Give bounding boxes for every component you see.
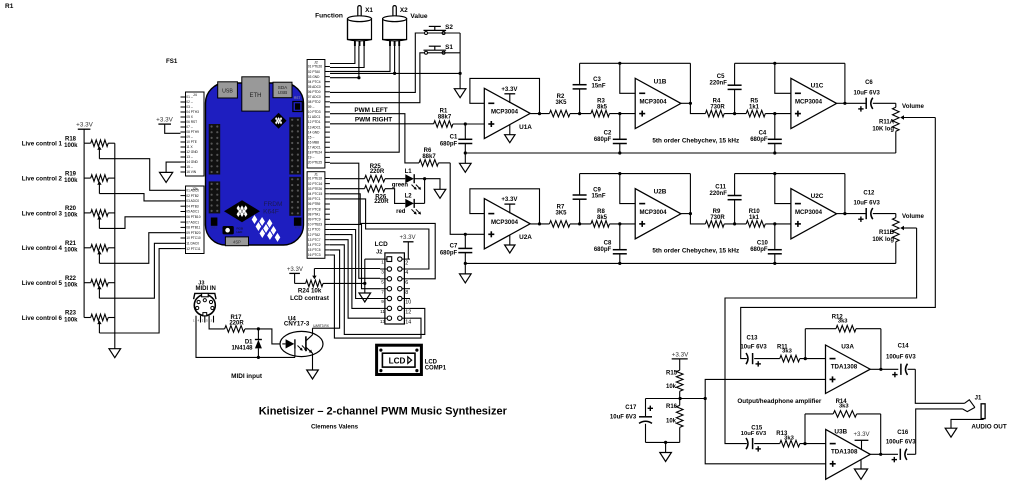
resistor R13 3k3 (780, 440, 800, 447)
resistor R11 3k3 (780, 355, 800, 362)
svg-text:U1A: U1A (519, 124, 532, 131)
svg-text:12 PTA2: 12 PTA2 (308, 233, 320, 237)
svg-text:J4: J4 (193, 93, 197, 97)
svg-text:07 ADC0: 07 ADC0 (308, 95, 321, 99)
wire opto LED cathode (294, 349, 296, 358)
svg-text:100k: 100k (64, 248, 78, 254)
svg-text:C12: C12 (863, 190, 875, 196)
wire U3B minus node (800, 443, 826, 445)
resistor R3 8k5 (591, 110, 610, 117)
svg-text:R11A: R11A (879, 120, 895, 126)
resistor R26 220R (330, 188, 365, 190)
wire rail (U1B) (580, 62, 691, 64)
USB connector (218, 82, 238, 98)
svg-text:06 PTB9: 06 PTB9 (308, 202, 321, 206)
svg-text:U2A: U2A (519, 234, 532, 241)
ground (U1A) (509, 125, 511, 135)
capacitor C7 680pF (464, 234, 466, 248)
wire S2 left (330, 33, 425, 92)
svg-text:Live control 5: Live control 5 (22, 280, 63, 287)
ground (C1) (460, 163, 472, 172)
svg-text:3k3: 3k3 (839, 404, 849, 410)
svg-text:Live control 2: Live control 2 (22, 176, 63, 183)
svg-text:1: 1 (381, 260, 384, 265)
wire nodeA (570, 223, 591, 225)
svg-text:680pF: 680pF (750, 247, 768, 253)
svg-text:1k1: 1k1 (749, 104, 760, 110)
LCD COMP1 icon (377, 345, 422, 374)
svg-text:LCD: LCD (389, 357, 406, 366)
wire PWM RIGHT (330, 123, 434, 125)
svg-text:100k: 100k (64, 213, 78, 219)
svg-text:10 PTE: 10 PTE (186, 140, 197, 144)
wire LC6 wiper to J2b (99, 249, 180, 333)
svg-text:03 ADC0: 03 ADC0 (186, 199, 199, 203)
wire U3A minus node (800, 358, 826, 360)
resistor R17 220R (225, 326, 245, 333)
svg-text:X1: X1 (365, 7, 373, 14)
svg-text:+3.3V: +3.3V (853, 431, 870, 438)
svg-text:09 --: 09 -- (308, 105, 315, 109)
ground (R16) (660, 453, 672, 462)
ground (LEDs) (434, 189, 446, 198)
svg-text:U1C: U1C (811, 83, 824, 90)
svg-text:12: 12 (405, 310, 411, 316)
svg-text:13 --: 13 -- (186, 155, 193, 159)
svg-text:Function: Function (315, 13, 343, 20)
svg-text:10: 10 (405, 300, 411, 306)
wire C16 to jack (916, 409, 963, 454)
wire nodeC (724, 113, 746, 115)
wire LC2 wiper to J2b (99, 194, 180, 201)
svg-text:MIDI IN: MIDI IN (196, 286, 216, 292)
svg-text:01 PTE26: 01 PTE26 (308, 65, 322, 69)
svg-text:03 PTE26: 03 PTE26 (308, 187, 322, 191)
svg-text:C9: C9 (593, 187, 601, 193)
svg-text:Kinetisizer – 2-channel PWM Mu: Kinetisizer – 2-channel PWM Music Synthe… (259, 406, 508, 418)
wire U1B minus (620, 63, 635, 93)
wire U2A feedback (470, 189, 540, 224)
wire LC5 wiper to J2b (99, 243, 180, 298)
svg-text:S2: S2 (445, 24, 453, 31)
wire gnd row (330, 72, 460, 74)
svg-text:12 GND: 12 GND (186, 150, 198, 154)
wire J2p1 to X1 A (330, 46, 355, 64)
ground (switches) (454, 89, 466, 98)
logo white chevrons (252, 215, 258, 224)
resistor R14 3k3 (804, 414, 806, 444)
op-amp U3B TDA1308 (826, 429, 871, 479)
svg-text:11 DAC0: 11 DAC0 (186, 242, 199, 246)
svg-text:15 --: 15 -- (308, 135, 315, 139)
svg-text:TDA1308: TDA1308 (831, 448, 858, 455)
svg-text:C7: C7 (450, 244, 458, 250)
wire R24 gnd (363, 282, 366, 285)
wire LCD pin4 route (330, 199, 429, 269)
svg-text:19 --: 19 -- (308, 156, 315, 160)
ground (jack) (945, 428, 957, 437)
op-amp U2C MCP3004 (791, 189, 837, 239)
wire R11B to C15 (725, 228, 917, 444)
svg-text:R22: R22 (65, 276, 77, 282)
potentiometer R24 10k (295, 282, 306, 284)
resistor R9 730R (705, 221, 724, 228)
potentiometer R11A 10K log (895, 103, 897, 107)
ETH connector (242, 77, 269, 111)
svg-text:220nF: 220nF (710, 81, 728, 87)
svg-text:05 X: 05 X (186, 115, 193, 119)
ground (U3B) (860, 459, 862, 469)
svg-text:Clemens Valens: Clemens Valens (311, 424, 359, 431)
capacitor C11 220nF (734, 200, 736, 224)
svg-text:680pF: 680pF (750, 137, 768, 143)
INT2 chip (211, 218, 218, 226)
svg-text:220R: 220R (370, 169, 385, 175)
op-amp U2B MCP3004 (635, 189, 681, 239)
pin header left bottom (209, 181, 221, 213)
svg-text:10K log: 10K log (872, 237, 894, 243)
svg-text:220nF: 220nF (710, 191, 728, 197)
wire R11A wiper (904, 117, 936, 119)
svg-text:MCP3004: MCP3004 (491, 109, 519, 116)
svg-text:08 PTA1: 08 PTA1 (308, 212, 320, 216)
rotary encoder X1 (358, 6, 361, 20)
wire gnd rail (465, 152, 896, 154)
svg-text:8: 8 (405, 290, 408, 296)
svg-text:02 PTA0: 02 PTA0 (308, 70, 320, 74)
svg-text:11: 11 (380, 309, 385, 314)
wire J4 gnd (166, 162, 180, 172)
svg-text:680pF: 680pF (594, 137, 612, 143)
wire LCD pin9 route (330, 230, 380, 299)
wire U3A out (870, 368, 898, 370)
svg-text:04 PTC15: 04 PTC15 (308, 192, 323, 196)
svg-text:14 GND: 14 GND (308, 130, 320, 134)
svg-text:3k3: 3k3 (782, 348, 792, 354)
potentiometer R21 100k (84, 247, 91, 249)
svg-text:C5: C5 (717, 74, 725, 80)
svg-text:05 ADC1: 05 ADC1 (186, 210, 199, 214)
svg-text:13 PTC7: 13 PTC7 (308, 238, 321, 242)
logo big diamond (224, 200, 260, 222)
wire U1A out (530, 113, 549, 115)
INT1 chip (294, 218, 302, 226)
svg-text:Volume: Volume (902, 213, 924, 220)
svg-text:+3.3V: +3.3V (287, 266, 304, 273)
pin header right bottom (289, 177, 301, 216)
wire LCD pin11 route (330, 235, 380, 309)
svg-text:09 --: 09 -- (186, 135, 193, 139)
connector J1 MCU (307, 172, 325, 259)
svg-text:+3.3V: +3.3V (501, 196, 518, 203)
svg-text:09 PTB20: 09 PTB20 (186, 231, 200, 235)
wire LC3 wiper to J2b (99, 217, 180, 229)
capacitor C4 680pF (774, 114, 776, 140)
svg-text:5th order Chebychev, 15 kHz: 5th order Chebychev, 15 kHz (652, 248, 739, 255)
svg-text:14 GND: 14 GND (186, 160, 198, 164)
svg-text:100k: 100k (64, 283, 78, 289)
LED L2 red (405, 199, 414, 208)
svg-text:5: 5 (381, 279, 384, 284)
svg-text:X2: X2 (400, 7, 408, 14)
potentiometer R23 100k (84, 317, 91, 319)
svg-text:USB: USB (222, 88, 233, 94)
svg-text:04 PTH3: 04 PTH3 (186, 110, 199, 114)
svg-text:14 PTC2: 14 PTC2 (308, 243, 321, 247)
svg-text:06 RST: 06 RST (186, 120, 197, 124)
svg-text:MCP3004: MCP3004 (639, 209, 667, 216)
svg-text:AUDIO OUT: AUDIO OUT (971, 423, 1006, 430)
svg-text:100uF 6V3: 100uF 6V3 (886, 354, 916, 360)
pin header left top (209, 124, 221, 175)
svg-text:R21: R21 (65, 241, 77, 247)
svg-text:18 PTE24: 18 PTE24 (308, 151, 322, 155)
svg-text:LCD: LCD (375, 241, 389, 248)
svg-text:R19: R19 (65, 171, 77, 177)
ground (J4) (160, 172, 173, 182)
capacitor C2 680pF (619, 114, 621, 140)
svg-text:3k3: 3k3 (838, 318, 848, 324)
wire LCD pin7 route (330, 224, 380, 288)
svg-text:Value: Value (410, 13, 428, 20)
capacitor C5 220nF (734, 89, 736, 113)
svg-text:15 --: 15 -- (186, 165, 193, 169)
svg-text:1k1: 1k1 (749, 215, 760, 221)
svg-text:C13: C13 (746, 336, 758, 342)
svg-text:08 PTB11: 08 PTB11 (186, 226, 200, 230)
wire nodeC (724, 223, 746, 225)
rotary encoder X2 (393, 6, 396, 20)
svg-text:10uF 6V3: 10uF 6V3 (854, 90, 881, 96)
capacitor C14 100uF 6V3 (900, 364, 902, 375)
op-amp U1B MCP3004 (635, 78, 681, 128)
svg-text:U2B: U2B (654, 189, 667, 196)
svg-text:C16: C16 (897, 430, 909, 436)
svg-text:4: 4 (405, 270, 408, 276)
svg-text:MIDI input: MIDI input (231, 373, 263, 380)
svg-text:TDA1308: TDA1308 (831, 363, 858, 370)
svg-text:07 ADC1: 07 ADC1 (186, 220, 199, 224)
svg-text:+3.3V: +3.3V (672, 352, 689, 359)
resistor R25 220R (330, 178, 365, 180)
svg-text:Live control 1: Live control 1 (22, 141, 63, 148)
svg-text:10uF 6V3: 10uF 6V3 (740, 344, 767, 350)
svg-text:12 PTD1: 12 PTD1 (308, 120, 321, 124)
svg-text:C17: C17 (625, 405, 637, 411)
capacitor C16 100uF 6V3 (899, 449, 901, 460)
svg-text:100k: 100k (64, 178, 78, 184)
switch S1 (425, 51, 428, 54)
resistor R12 3k3 (804, 329, 806, 359)
svg-text:Live control 3: Live control 3 (22, 210, 63, 217)
svg-text:06 PTD0: 06 PTD0 (308, 90, 321, 94)
svg-text:05 PTC1: 05 PTC1 (308, 197, 321, 201)
FRDM-K64F board (206, 83, 304, 245)
svg-text:U3B: U3B (834, 428, 847, 435)
wire R24 wiper to LCD pin3 (314, 268, 380, 270)
svg-text:Live control 6: Live control 6 (22, 315, 63, 322)
svg-text:05 ADC0: 05 ADC0 (308, 85, 321, 89)
wire U1A feedback (470, 78, 540, 113)
svg-text:680pF: 680pF (440, 250, 458, 256)
wire U2C minus (775, 174, 791, 204)
svg-text:10k: 10k (666, 418, 677, 424)
logo small diamond (271, 113, 287, 129)
resistor R1 88k7 (434, 121, 453, 128)
svg-text:07 PTC8: 07 PTC8 (308, 207, 321, 211)
svg-text:04 PTB3: 04 PTB3 (186, 204, 199, 208)
ground (opto) (307, 370, 319, 379)
svg-text:L1: L1 (405, 169, 413, 175)
svg-text:01 ADC0: 01 ADC0 (186, 189, 199, 193)
svg-text:J1: J1 (975, 395, 982, 401)
ground (U2A) (509, 235, 511, 245)
wire LC1 wiper to J2b (99, 159, 180, 191)
svg-text:J2: J2 (376, 249, 382, 255)
resistor R15 10k (676, 370, 683, 391)
wire nodeA (570, 113, 591, 115)
wire nodeD (765, 113, 791, 115)
resistor R2 3K5 (549, 110, 570, 117)
wire S1 left (330, 53, 425, 103)
svg-text:730R: 730R (710, 104, 725, 110)
svg-text:red: red (396, 209, 406, 215)
wire LCD pin12 route (330, 245, 425, 335)
wire DIN pin to rail (196, 323, 295, 358)
svg-text:10K log: 10K log (872, 127, 894, 133)
svg-text:08 PTH9: 08 PTH9 (186, 130, 199, 134)
capacitor C10 680pF (774, 224, 776, 250)
capacitor C17 10uF 6V3 (645, 399, 647, 417)
svg-text:220R: 220R (374, 199, 389, 205)
potentiometer R20 100k (84, 212, 91, 214)
svg-text:PWM RIGHT: PWM RIGHT (355, 117, 392, 124)
svg-text:3: 3 (381, 270, 384, 275)
svg-text:R20: R20 (65, 206, 77, 212)
svg-text:12 PTC11: 12 PTC11 (186, 247, 200, 251)
svg-text:C8: C8 (604, 241, 612, 247)
svg-text:S1: S1 (445, 44, 453, 51)
wire R11B wiper (904, 227, 917, 229)
connector J2 LCD (385, 253, 405, 324)
svg-text:MCP3004: MCP3004 (491, 219, 519, 226)
resistor R16 10k (679, 399, 681, 406)
potentiometer R19 100k (84, 177, 91, 179)
wire U2B minus (620, 174, 635, 204)
svg-text:L2: L2 (405, 194, 413, 200)
wire LC4 wiper to J2b (99, 233, 180, 264)
svg-text:INT2: INT2 (211, 226, 217, 230)
svg-text:13: 13 (380, 319, 386, 324)
svg-text:100uF 6V3: 100uF 6V3 (886, 439, 916, 445)
wire R1 to +in (453, 123, 484, 125)
capacitor C9 15nF (579, 199, 581, 224)
svg-text:R1: R1 (5, 3, 14, 10)
svg-text:R24 10k: R24 10k (298, 288, 322, 295)
wire X1 C drop (330, 77, 359, 79)
svg-text:15nF: 15nF (591, 194, 605, 200)
wire LCD pin6 route (330, 194, 435, 279)
svg-text:08 PTD2: 08 PTD2 (308, 100, 321, 104)
wire switch common (428, 32, 461, 34)
switch S2 (425, 32, 428, 35)
svg-text:7: 7 (381, 289, 384, 294)
svg-text:LCD: LCD (425, 359, 438, 365)
svg-text:UART3 RX: UART3 RX (313, 324, 330, 328)
optocoupler U4 CNY17-3 (280, 331, 323, 356)
wire U3B out (870, 453, 898, 455)
svg-text:C6: C6 (865, 80, 873, 86)
svg-text:FS1: FS1 (166, 58, 178, 65)
op-amp U3A TDA1308 (826, 345, 871, 394)
svg-text:U1B: U1B (654, 78, 667, 85)
svg-text:10 PTC10: 10 PTC10 (186, 236, 201, 240)
connector J2 MCU (307, 60, 325, 169)
svg-text:680pF: 680pF (440, 141, 458, 147)
svg-text:20 PTE25: 20 PTE25 (308, 161, 322, 165)
svg-text:15nF: 15nF (591, 83, 605, 89)
svg-text:09 PTC9: 09 PTC9 (308, 218, 321, 222)
potentiometer R11B 10K log (895, 214, 897, 218)
op-amp U1A MCP3004 (484, 88, 530, 138)
wire U2B out (681, 213, 691, 215)
resistor R6 88k7 (419, 160, 438, 167)
svg-text:13 ADC1: 13 ADC1 (308, 125, 321, 129)
svg-text:16 VIN: 16 VIN (186, 170, 196, 174)
svg-text:10k: 10k (666, 384, 677, 390)
svg-text:MCP3004: MCP3004 (795, 209, 823, 216)
svg-text:06 PTB10: 06 PTB10 (186, 215, 200, 219)
wire pot right rail (114, 143, 116, 349)
capacitor C8 680pF (619, 224, 621, 250)
svg-text:MCP3004: MCP3004 (795, 99, 823, 106)
svg-text:11 ADC1: 11 ADC1 (308, 115, 321, 119)
connector J4 (186, 92, 205, 176)
svg-text:10uF 6V3: 10uF 6V3 (610, 414, 637, 420)
svg-text:Live control 4: Live control 4 (22, 245, 63, 252)
svg-text:17 ADC1: 17 ADC1 (308, 146, 321, 150)
wire U1B out (681, 102, 691, 104)
svg-text:C2: C2 (604, 130, 612, 136)
wire U2A out (530, 223, 549, 225)
svg-text:16 MB8: 16 MB8 (308, 140, 319, 144)
svg-text:11 PTC0: 11 PTC0 (308, 228, 321, 232)
op-amp U1C MCP3004 (791, 78, 837, 128)
potentiometer R22 100k (84, 282, 91, 284)
svg-text:U2C: U2C (811, 193, 824, 200)
wire X2 B drop (330, 46, 399, 152)
svg-text:+3.3V: +3.3V (399, 234, 416, 241)
svg-text:RST: RST (294, 96, 300, 100)
svg-text:LCD contrast: LCD contrast (290, 295, 329, 302)
wire R11A to C13 (741, 118, 936, 359)
svg-text:88k7: 88k7 (438, 115, 452, 121)
wire J2p2 to X1 B (330, 46, 364, 68)
svg-text:MCP3004: MCP3004 (639, 99, 667, 106)
svg-text:+3.3V: +3.3V (501, 86, 518, 93)
svg-text:+3.3V: +3.3V (76, 121, 93, 128)
svg-text:88k7: 88k7 (422, 154, 436, 160)
svg-text:02 --: 02 -- (186, 100, 193, 104)
wire PWM LEFT (330, 114, 419, 163)
svg-text:FRDM: FRDM (263, 201, 282, 208)
svg-text:ETH: ETH (250, 93, 262, 99)
wire J2p4 to X2 A (330, 46, 390, 71)
wire X2 C drop (394, 46, 396, 73)
resistor R7 3K5 (549, 221, 570, 228)
svg-text:USB: USB (278, 90, 287, 95)
svg-text:04 PTC4: 04 PTC4 (308, 80, 321, 84)
